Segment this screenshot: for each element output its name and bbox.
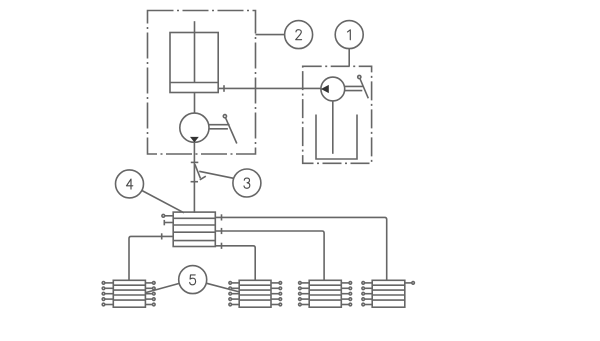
output line to block C <box>215 231 324 280</box>
tank T2 level line <box>170 82 218 84</box>
pump P2 lever handle knob <box>223 115 226 118</box>
leader to balloon 3 <box>199 171 233 178</box>
balloon 1 leader <box>348 49 350 67</box>
sub-distributor block C <box>309 280 341 307</box>
balloon 5 <box>179 266 207 294</box>
balloon 2 leader <box>256 34 285 36</box>
block B left ports <box>229 282 239 306</box>
distributor port 2 left stub <box>164 222 173 224</box>
tick joint upper <box>191 161 199 163</box>
balloon 5 leader to block A <box>146 283 179 292</box>
enclosure 2 (dash-dot boundary of hand pump unit) <box>148 11 256 155</box>
enclosure 1 (dash-dot boundary of pump unit) <box>303 66 372 163</box>
wire tank to pump P2 <box>194 93 196 114</box>
tick joint out B <box>221 243 223 249</box>
pump M1 lever arm <box>345 85 364 87</box>
block D left ports <box>362 282 372 306</box>
lubrication point symbol (item 3) <box>195 164 201 178</box>
balloon 1 <box>335 21 363 49</box>
sub-distributor block D <box>372 280 405 307</box>
pump M1 lever diagonal <box>360 79 368 99</box>
feed line to block A <box>129 236 173 280</box>
tick joint out D <box>221 214 223 220</box>
wire pump M1 down into tank T1 <box>332 101 334 154</box>
balloon 5 leader to block B <box>206 283 239 292</box>
block C left ports <box>299 282 310 306</box>
pump M1 circle <box>321 77 345 101</box>
block B right ports <box>271 282 282 306</box>
balloon 4 leader <box>142 191 184 213</box>
vent/fill pipe <box>194 21 196 82</box>
sub-distributor block A <box>113 280 145 307</box>
pump M1 lever handle knob <box>358 75 361 78</box>
open tank T1 <box>316 115 357 160</box>
sub-distributor block B <box>239 280 271 307</box>
output line to block D <box>215 217 386 280</box>
pump P2 lever arm <box>209 124 230 126</box>
pump M1 flow triangle <box>321 85 329 93</box>
balloon 2 <box>285 21 313 49</box>
hand pump P2 circle <box>180 113 209 142</box>
block C right ports <box>341 282 351 306</box>
distributor port circle top-left <box>162 214 165 217</box>
pump P2 flow triangle <box>190 137 199 143</box>
reservoir tank T2 <box>170 33 218 93</box>
tick joint out C <box>221 228 223 234</box>
balloon 4 <box>116 170 144 198</box>
block D right port <box>405 282 415 285</box>
block A right ports <box>145 282 155 306</box>
wire tank T2 outlet to motor M1 <box>218 87 321 89</box>
block A left ports <box>102 282 113 306</box>
output line to block B <box>215 246 255 280</box>
wire pump P2 output down to distributor <box>193 142 195 212</box>
pump P2 lever diagonal <box>226 118 237 144</box>
balloon 3 <box>233 169 261 197</box>
tick joint on outlet <box>223 85 225 92</box>
tick joint lower <box>191 181 198 183</box>
tick joint feed A <box>161 233 163 239</box>
progressive distributor block (item 4) <box>173 212 215 246</box>
